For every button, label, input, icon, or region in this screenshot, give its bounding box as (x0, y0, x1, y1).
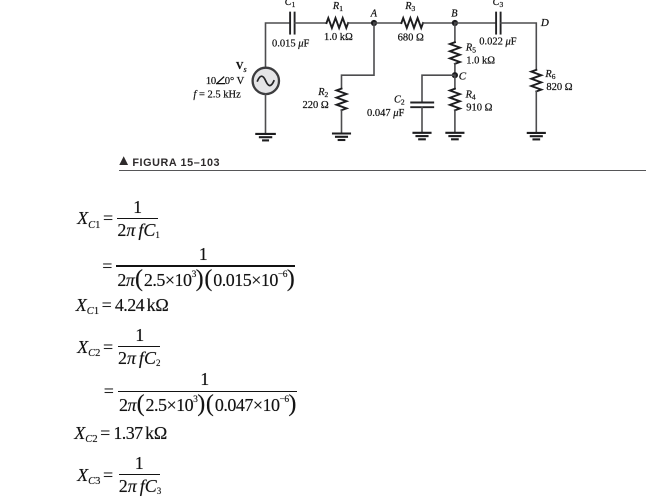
value label 680 Ohm (398, 32, 424, 43)
svg-text:f = 2.5 kHz: f = 2.5 kHz (193, 89, 241, 100)
wire A to R3 (374, 22, 401, 24)
svg-text:0° V: 0° V (225, 76, 245, 87)
equation line 3: XC1 = 4.24 kOhm (76, 305, 169, 309)
wire C2 to ground (421, 107, 423, 132)
label C2 (394, 94, 405, 106)
resistor R5 (450, 42, 460, 64)
svg-text:R3: R3 (404, 1, 415, 13)
svg-text:910 Ω: 910 Ω (466, 103, 492, 114)
svg-text:R1: R1 (332, 1, 343, 13)
svg-text:10: 10 (206, 76, 216, 87)
wire R4 to ground (454, 110, 456, 133)
ground R6 (528, 133, 545, 140)
svg-text:C3: C3 (493, 0, 504, 9)
label R4 (465, 89, 476, 101)
ground source (256, 134, 275, 141)
label Vs (236, 61, 247, 74)
label R3 (404, 1, 415, 13)
node C (452, 72, 458, 78)
svg-text:Vs: Vs (236, 61, 247, 74)
value label 0.022 uF (479, 36, 517, 47)
value label 0.015 uF (272, 38, 310, 49)
label C1 (285, 0, 296, 9)
svg-text:R5: R5 (465, 42, 476, 54)
svg-text:0.022 μF: 0.022 μF (479, 36, 517, 47)
svg-text:1.0 kΩ: 1.0 kΩ (324, 32, 353, 43)
wire C1 to R1 (295, 22, 327, 24)
wire node C to R4 (454, 75, 456, 89)
value label 1.0 kOhm R5 (466, 55, 495, 66)
figure caption (119, 157, 646, 169)
label C (459, 71, 467, 83)
label R6 (544, 69, 555, 81)
value label 910 Ohm (466, 103, 492, 114)
wire R1 to node A (348, 22, 374, 24)
label C3 (493, 0, 504, 9)
capacitor C3 (496, 13, 501, 34)
svg-text:820 Ω: 820 Ω (546, 82, 572, 93)
value label 0.047 uF (367, 108, 405, 119)
svg-text:A: A (370, 8, 378, 19)
label R1 (332, 1, 343, 13)
resistor R1 (327, 18, 349, 28)
ground R4 (446, 133, 463, 140)
wire R2 to ground (341, 110, 343, 133)
equation line 6: XC2 = 1.37 kOhm (74, 433, 167, 437)
ground C2 (414, 133, 431, 140)
svg-text:0.047 μF: 0.047 μF (367, 108, 405, 119)
equation line 5: = 1/(2 pi (2.5e3)(0.047e-6)) (104, 390, 114, 392)
resistor R2 (337, 89, 347, 111)
resistor R4 (450, 89, 460, 111)
svg-text:680 Ω: 680 Ω (398, 32, 424, 43)
wire C3 to corner D down to R6 (501, 23, 536, 70)
svg-text:B: B (451, 8, 457, 19)
resistor R3 (401, 18, 423, 28)
node B (452, 20, 458, 26)
equation line 7: XC3 = 1/(2 pi f C3) (77, 475, 116, 479)
svg-text:0.015 μF: 0.015 μF (272, 38, 310, 49)
node A (371, 20, 377, 26)
caption rule (119, 170, 646, 172)
wire source to ground (265, 94, 267, 134)
node D label (540, 17, 549, 29)
svg-text:R4: R4 (465, 89, 476, 101)
equation line 1: XC1 = 1/(2 pi f C1) (77, 218, 116, 222)
label 10 angle 0 V (206, 76, 245, 87)
equation line 4: XC2 = 1/(2 pi f C2) (77, 347, 116, 351)
wire R3 to node B (423, 22, 455, 24)
circuit schematic (0, 0, 656, 156)
svg-text:R6: R6 (544, 69, 555, 81)
svg-text:C: C (459, 71, 467, 83)
label B (451, 8, 457, 19)
svg-text:220 Ω: 220 Ω (303, 100, 329, 111)
voltage source Vs (253, 68, 279, 94)
capacitor C2 (411, 103, 433, 108)
wire R5 to node C (454, 64, 456, 75)
svg-text:C1: C1 (285, 0, 296, 9)
wire node C left to C2 (422, 75, 455, 102)
capacitor C1 (290, 13, 295, 34)
svg-text:1.0 kΩ: 1.0 kΩ (466, 55, 495, 66)
resistor R6 (531, 70, 541, 92)
label R5 (465, 42, 476, 54)
label R2 (317, 87, 328, 99)
label f = 2.5 kHz (193, 89, 241, 100)
value label 1.0 kOhm (324, 32, 353, 43)
value label 220 Ohm (303, 100, 329, 111)
ground R2 (333, 134, 350, 141)
value label 820 Ohm (546, 82, 572, 93)
label A (370, 8, 378, 19)
svg-text:D: D (540, 17, 549, 29)
equation line 2: = 1/(2 pi (2.5e3)(0.015e-6)) (102, 265, 112, 267)
wire R6 to ground (535, 91, 537, 132)
svg-text:R2: R2 (317, 87, 328, 99)
wire B to C3 (455, 22, 496, 24)
svg-text:C2: C2 (394, 94, 405, 106)
wire node B to R5 (454, 23, 456, 42)
wire source top to C1 (266, 23, 290, 68)
wire node A down-left to R2 (342, 23, 375, 89)
